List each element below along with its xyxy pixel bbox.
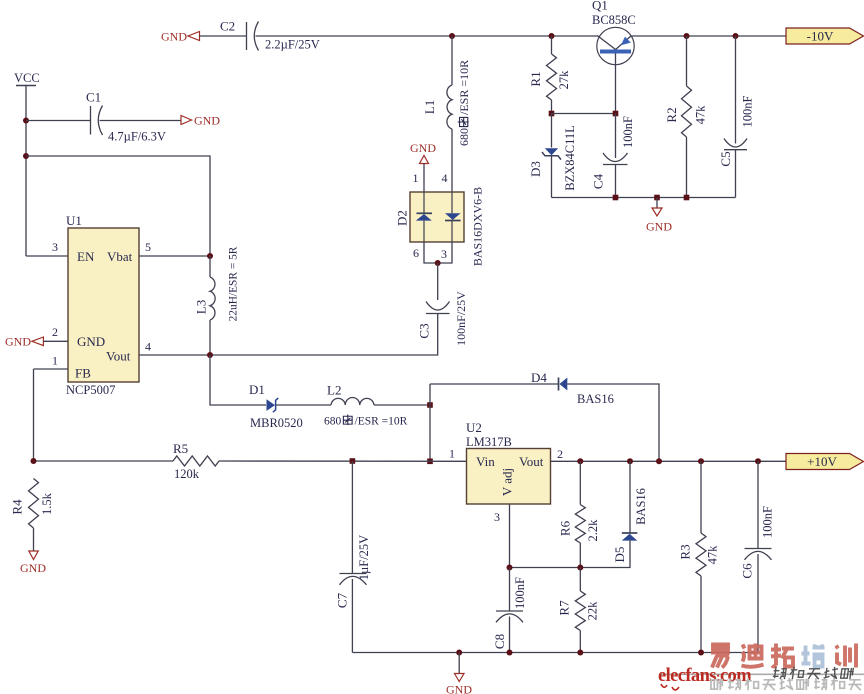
wire R5 row left (34, 460, 174, 462)
svg-text:GND: GND (20, 561, 46, 575)
node junction C4 bottom (613, 195, 619, 201)
node junction D5 top (627, 458, 633, 464)
node junction GND bottom (456, 650, 462, 656)
svg-text:1µF/25V: 1µF/25V (357, 535, 371, 580)
svg-text:BAS16: BAS16 (634, 488, 648, 525)
wire R5 to U2 Vin (219, 460, 467, 462)
ground symbol below R4 (20, 551, 46, 575)
node junction adj/C8 (507, 565, 513, 571)
svg-text:Vbat: Vbat (107, 249, 133, 264)
node junction R2 top (684, 33, 690, 39)
regulator U2 LM317B (466, 420, 551, 504)
node junction R3 top (698, 458, 704, 464)
capacitor C2 (247, 22, 259, 51)
node junction C6 top (755, 458, 761, 464)
node junction R1 bottom (549, 111, 555, 117)
node junction below D2 (435, 260, 441, 266)
node junction C5 top (733, 33, 739, 39)
wire R1 junction to C4 (552, 113, 616, 115)
wire D1 to L2 (276, 404, 331, 406)
node junction Vbat/L3 (207, 253, 213, 259)
svg-text:Q1: Q1 (592, 0, 608, 13)
inductor L2 (331, 398, 374, 406)
svg-text:100nF: 100nF (761, 506, 775, 538)
svg-text:MBR0520: MBR0520 (250, 416, 303, 430)
node junction Vin row (427, 459, 433, 465)
wire L2 to junction (374, 404, 430, 406)
svg-text:GND: GND (410, 141, 436, 155)
capacitor C6 (740, 461, 775, 652)
svg-text:EN: EN (77, 249, 95, 264)
svg-text:R6: R6 (558, 520, 573, 536)
svg-text:100nF: 100nF (513, 577, 527, 609)
ground symbol bottom (446, 653, 472, 694)
wire Q1 to -10V banner (632, 35, 786, 37)
ground flag right of C1 (181, 114, 220, 128)
svg-text:BC858C: BC858C (592, 13, 636, 27)
svg-text:C2: C2 (220, 19, 235, 34)
wire VCC down to EN pin (25, 86, 27, 257)
ground symbol -10V block (646, 198, 672, 234)
wire GND to C2 (200, 35, 247, 37)
capacitor C3 (426, 302, 450, 314)
wire VCC to C1 (26, 120, 90, 122)
svg-text:3: 3 (494, 510, 500, 524)
svg-text:Vin: Vin (476, 454, 495, 469)
svg-text:L2: L2 (327, 383, 341, 398)
svg-text:C8: C8 (492, 634, 507, 649)
svg-text:GND: GND (446, 683, 472, 694)
svg-text:VCC: VCC (14, 71, 40, 85)
wire ground rail of -10V block (552, 197, 736, 199)
node junction Vout/L3/C3 (207, 352, 213, 358)
svg-text:/ESR =10R: /ESR =10R (457, 60, 471, 115)
svg-text:Vout: Vout (519, 454, 544, 469)
pin 2 Vout wire to +10V banner (551, 460, 787, 462)
wire L1 to D2 pin4 (451, 129, 453, 192)
svg-text:FB: FB (75, 366, 91, 381)
node junction R7 bottom (577, 650, 583, 656)
svg-text:100nF: 100nF (621, 116, 635, 148)
svg-text:/ESR =10R: /ESR =10R (355, 416, 408, 428)
transistor Q1 BC858C (592, 0, 636, 114)
node junction GND stub (654, 195, 660, 201)
zener diode D3 BZX84C11L (528, 114, 577, 198)
svg-text:C3: C3 (417, 323, 432, 338)
node junction FB/R4/R5 (31, 458, 37, 464)
power symbol VCC (14, 71, 40, 86)
svg-text:4: 4 (145, 340, 151, 354)
svg-text:U2: U2 (466, 420, 482, 435)
watermark elecfans logo (658, 644, 864, 691)
net connector +10V (786, 454, 864, 470)
capacitor C5 (718, 36, 754, 198)
svg-text:1.5k: 1.5k (40, 492, 54, 515)
capacitor C1 (91, 106, 103, 136)
svg-text:1: 1 (449, 447, 455, 461)
svg-text:BAS16: BAS16 (577, 392, 614, 406)
node junction R2 bottom (684, 195, 690, 201)
svg-text:22k: 22k (586, 601, 600, 621)
svg-text:C1: C1 (86, 90, 101, 105)
svg-text:C7: C7 (335, 592, 350, 608)
node junction C1 row (23, 118, 29, 124)
svg-text:R3: R3 (678, 544, 693, 559)
svg-text:C5: C5 (718, 151, 733, 166)
wire C1 to GND (100, 120, 182, 122)
pin 3 adj wire (509, 504, 511, 568)
resistor R4 (10, 479, 54, 552)
wire VCC branch to Vbat net (26, 156, 210, 256)
wire C3 to Vout node (210, 314, 438, 356)
capacitor C7 (335, 461, 372, 653)
node junction C4 top (613, 111, 619, 117)
svg-text:LM317B: LM317B (466, 435, 512, 449)
svg-text:L3: L3 (194, 300, 209, 314)
svg-text:22uH/ESR = 5R: 22uH/ESR = 5R (228, 246, 240, 321)
wire bottom ground rail (352, 652, 758, 654)
svg-text:120k: 120k (174, 467, 200, 481)
svg-text:680: 680 (324, 416, 342, 428)
svg-text:BZX84C11L: BZX84C11L (563, 125, 577, 191)
wire to diode D4 (430, 383, 559, 385)
svg-text:C4: C4 (591, 173, 606, 189)
svg-text:R2: R2 (664, 107, 679, 122)
ground symbol above D2 (410, 141, 436, 164)
svg-text:BAS16DXV6-B: BAS16DXV6-B (471, 187, 485, 266)
node junction R6 top (577, 458, 583, 464)
svg-text:D2: D2 (395, 210, 410, 226)
svg-text:1: 1 (413, 171, 419, 185)
pin 5 Vbat (139, 255, 210, 257)
resistor R5 (173, 456, 219, 466)
svg-text:R4: R4 (10, 499, 25, 515)
capacitor C8 (492, 568, 527, 653)
resistor R1 (551, 36, 553, 54)
svg-text:D1: D1 (249, 382, 265, 397)
svg-text:NCP5007: NCP5007 (66, 383, 115, 397)
diode D5 BAS16 (510, 461, 649, 567)
wire FB down to R5/R4 node (33, 369, 35, 461)
node junction L2/D4/Vin (427, 402, 433, 408)
svg-text:3: 3 (441, 247, 447, 261)
svg-text:U1: U1 (66, 213, 82, 228)
svg-text:100nF/25V: 100nF/25V (454, 291, 468, 346)
svg-text:2.2k: 2.2k (586, 519, 600, 542)
inductor L3 (210, 277, 215, 320)
svg-text:6: 6 (413, 246, 419, 260)
svg-text:R5: R5 (173, 441, 188, 456)
svg-text:Vout: Vout (106, 349, 131, 364)
svg-text:2: 2 (557, 447, 563, 461)
node junction R6/R7 (577, 565, 583, 571)
capacitor C4 (591, 114, 636, 198)
node junction D4 branch (656, 458, 662, 464)
svg-text:4: 4 (442, 171, 448, 185)
svg-text:GND: GND (5, 335, 31, 349)
resistor R3 (678, 461, 720, 652)
wire junction vertical D4 row to Vin row (429, 384, 431, 461)
wire D2 pin6 down (424, 242, 452, 263)
node junction C8 bottom (507, 650, 513, 656)
resistor R7 (557, 568, 600, 653)
svg-text:GND: GND (194, 114, 220, 128)
svg-text:D3: D3 (528, 161, 543, 177)
svg-text:47k: 47k (706, 545, 720, 565)
svg-text:GND: GND (161, 30, 187, 44)
svg-text:4.7µF/6.3V: 4.7µF/6.3V (108, 130, 166, 144)
pin 3 EN (26, 255, 68, 257)
svg-text:R1: R1 (528, 71, 543, 86)
svg-text:100nF: 100nF (740, 95, 754, 127)
svg-text:GND: GND (77, 334, 105, 349)
op-amp U1 NCP5007 (66, 213, 139, 397)
svg-text:D5: D5 (612, 547, 627, 563)
wire Vout node down to D1 (210, 355, 266, 405)
diode D4 BAS16 (531, 370, 614, 406)
dual diode D2 BAS16DXV6-B (395, 187, 485, 266)
pin 2 GND with ground flag (5, 335, 43, 349)
svg-text:GND: GND (646, 220, 672, 234)
svg-text:L1: L1 (422, 100, 437, 114)
svg-text:C6: C6 (740, 563, 755, 579)
svg-text:V adj: V adj (500, 468, 515, 496)
svg-text:3: 3 (52, 240, 58, 254)
node junction R3 bottom (698, 650, 704, 656)
resistor R2 (664, 36, 708, 198)
svg-text:2: 2 (52, 325, 58, 339)
svg-text:2.2µF/25V: 2.2µF/25V (265, 38, 320, 52)
svg-text:-10V: -10V (807, 29, 834, 44)
svg-text:680: 680 (457, 128, 471, 146)
inductor L1 (447, 85, 452, 129)
wire GND to D2 pin1 (423, 164, 425, 193)
wire L1 top lead (451, 36, 453, 85)
svg-text:+10V: +10V (807, 454, 837, 469)
svg-text:27k: 27k (557, 70, 571, 90)
node junction C7 top (350, 458, 356, 464)
wire D2 junction to C3 (437, 263, 439, 300)
svg-text:R7: R7 (557, 600, 572, 616)
pin 4 Vout (139, 354, 210, 356)
diode D1 MBR0520 (249, 382, 303, 430)
pin 1 FB (34, 368, 69, 370)
svg-text:1: 1 (52, 354, 58, 368)
node junction Vbat row (23, 153, 29, 159)
svg-text:5: 5 (145, 240, 151, 254)
node junction L1 top (449, 33, 455, 39)
svg-text:D4: D4 (531, 370, 547, 385)
wire D4 to +10V rail (567, 384, 659, 461)
net connector -10V (786, 28, 864, 44)
wire C2 to Q1 emitter (top rail left) (256, 35, 599, 37)
node junction R1 top (549, 33, 555, 39)
ground flag at C2 (161, 30, 200, 44)
svg-text:47k: 47k (694, 105, 708, 125)
resistor R6 (558, 461, 601, 567)
